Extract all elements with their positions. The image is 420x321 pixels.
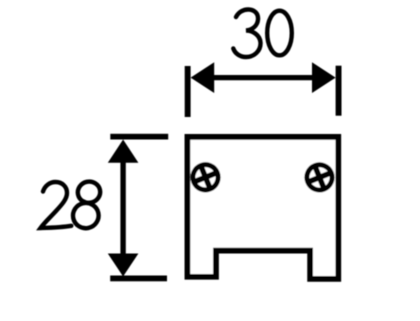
left dimension: top extension bar: [110, 134, 168, 140]
label "28" digit 2: [41, 182, 72, 228]
left dimension: bottom extension bar: [110, 276, 167, 282]
top dimension line: [205, 75, 321, 80]
label "28" digit 8: [71, 180, 102, 231]
screw left: [189, 161, 222, 194]
label "30" digit 0: [267, 11, 292, 56]
left dimension top arrowhead: [108, 140, 139, 163]
top dimension right arrowhead: [312, 62, 336, 93]
part outline (bracket body): [187, 137, 338, 279]
top dimension left arrowhead: [191, 62, 215, 93]
top dimension: left extension bar: [185, 66, 191, 117]
left dimension line: [120, 155, 125, 262]
label "30" digit 3: [233, 9, 260, 57]
screw right: [303, 161, 336, 194]
left dimension bottom arrowhead: [108, 254, 139, 277]
top dimension: right extension bar: [336, 66, 342, 116]
